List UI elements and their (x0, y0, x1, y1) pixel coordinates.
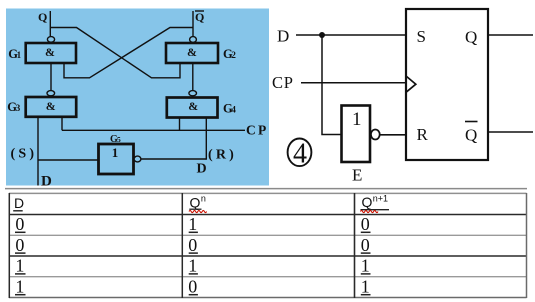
label G1 (8, 47, 21, 61)
svg-text:0: 0 (361, 214, 370, 234)
wire Qbar vertical (192, 11, 194, 37)
bubble on G3 output (47, 91, 55, 96)
label G4 (223, 102, 236, 116)
svg-text:3: 3 (16, 103, 21, 113)
wire feedback from Q to G2 input (50, 28, 180, 78)
table row line 3 (9, 255, 527, 257)
table bottom border (9, 297, 527, 299)
svg-text:&: & (187, 45, 197, 59)
wire D input vertical (left) (37, 117, 39, 186)
svg-text:1: 1 (188, 214, 197, 234)
bubble on E output (371, 130, 380, 140)
svg-text:(S): (S) (11, 147, 38, 162)
svg-text:&: & (45, 45, 55, 59)
table column separator 2 (354, 193, 356, 298)
bubble on G5 output (134, 156, 141, 162)
table header D (13, 195, 24, 211)
table left border (8, 193, 10, 298)
NAND gate G3 box (26, 97, 76, 117)
svg-text:1: 1 (15, 256, 24, 276)
svg-text:S: S (417, 27, 426, 46)
svg-text:Q: Q (190, 195, 201, 211)
wire G4 stub to CP line (179, 117, 181, 130)
svg-text:Q: Q (38, 10, 47, 24)
svg-text:1: 1 (361, 256, 370, 276)
table column separator 1 (181, 193, 183, 298)
circled number 4 (288, 138, 312, 169)
bubble on G2 output (190, 37, 197, 43)
table row 1 values (15, 214, 369, 234)
svg-text:CP: CP (246, 123, 268, 138)
svg-text:0: 0 (361, 235, 370, 255)
svg-text:0: 0 (15, 214, 24, 234)
blue circuit panel background (6, 9, 269, 186)
wire G3 output to G1 (50, 63, 52, 91)
svg-text:n: n (201, 194, 206, 204)
svg-text:D: D (197, 162, 207, 177)
wire G4 output to G2 (192, 63, 194, 91)
wire Q output (488, 34, 533, 36)
svg-text:1: 1 (352, 109, 362, 130)
wire D branch to inverter E (322, 35, 342, 135)
NAND gate G1 box (26, 43, 76, 63)
svg-text:0: 0 (188, 276, 197, 296)
inverter E box (342, 106, 371, 163)
flip-flop box U1 (406, 9, 488, 160)
pin label Qbar (465, 122, 478, 145)
bubble on G4 output (189, 91, 197, 96)
svg-text:Q: Q (465, 126, 477, 145)
label G3 (7, 100, 20, 114)
svg-text:D: D (41, 174, 52, 190)
wire feedback from Qbar to G1 input (64, 28, 193, 78)
wire CP input line (301, 82, 406, 84)
label G2 (223, 47, 236, 61)
svg-text:1: 1 (15, 276, 24, 296)
junction dot on D line (319, 32, 325, 38)
table row line 4 (9, 276, 527, 278)
table row 4 values (15, 276, 369, 296)
svg-text:1: 1 (361, 276, 370, 296)
svg-text:&: & (46, 99, 56, 113)
gray horizontal rule (5, 188, 527, 190)
svg-text:Q: Q (465, 28, 477, 47)
svg-text:1: 1 (112, 145, 119, 160)
label G5 (110, 134, 121, 145)
svg-text:&: & (188, 99, 198, 113)
NAND gate G4 box (167, 98, 218, 118)
wire D input line (296, 34, 406, 36)
svg-text:4: 4 (293, 138, 307, 169)
clock triangle (406, 76, 416, 92)
table top border (9, 192, 527, 194)
wire G3 stub to CP line (61, 117, 63, 131)
svg-text:R: R (417, 125, 429, 144)
svg-text:n+1: n+1 (373, 193, 388, 203)
wire CP horizontal (62, 129, 245, 131)
svg-text:0: 0 (188, 235, 197, 255)
wire Q vertical (49, 11, 51, 37)
svg-text:D: D (14, 195, 24, 211)
table row 2 values (15, 235, 369, 255)
wire E output to R pin (380, 134, 406, 136)
table row 3 values (15, 256, 369, 276)
wire Qbar output (488, 131, 533, 133)
NAND gate G2 box (166, 43, 218, 63)
svg-text:D: D (277, 27, 289, 46)
table header Qn+1 (360, 193, 389, 212)
bubble on G1 output (47, 37, 54, 43)
svg-text:Q: Q (195, 10, 204, 24)
svg-text:4: 4 (231, 105, 236, 115)
table row line 1 (9, 214, 527, 216)
svg-text:Q: Q (362, 194, 373, 210)
svg-text:CP: CP (272, 73, 294, 92)
table header Qn (189, 194, 207, 213)
wire S line to G5 input (39, 159, 99, 161)
svg-text:2: 2 (231, 50, 236, 60)
inverter G5 box (99, 144, 134, 174)
svg-text:(R): (R) (208, 148, 237, 163)
node Qbar label (195, 10, 204, 24)
svg-text:1: 1 (17, 50, 22, 60)
svg-text:1: 1 (188, 256, 197, 276)
node Q label (38, 10, 47, 24)
table right border (526, 193, 528, 298)
svg-text:E: E (352, 166, 362, 185)
wire G5 output to R vertical (141, 158, 206, 160)
table row line 2 (9, 234, 527, 236)
svg-text:0: 0 (15, 235, 24, 255)
wire R vertical to G4 (205, 117, 207, 160)
